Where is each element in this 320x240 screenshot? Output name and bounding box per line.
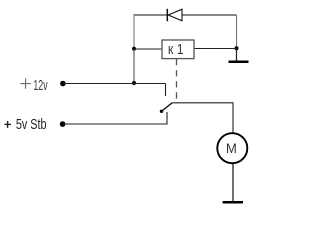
diode D1 cathode bar — [166, 9, 168, 21]
wire switch common to motor — [172, 103, 233, 134]
label +12v plus sign — [20, 83, 30, 85]
wire left riser lower — [133, 49, 135, 84]
wire stub to contact K1.1 top throw — [165, 84, 167, 97]
relay contact K1.1 arm — [161, 103, 172, 112]
wire diode right — [182, 14, 237, 16]
wire from node A corner to diode cathode — [134, 14, 168, 16]
svg-text:к 1: к 1 — [168, 42, 184, 58]
diode D1 triangle — [168, 9, 182, 21]
node junction left — [132, 47, 136, 51]
label + 5v Stb plus sign — [4, 123, 10, 125]
wire junction to relay left — [134, 48, 162, 50]
ground top-right — [229, 60, 249, 63]
ground bottom — [223, 201, 243, 204]
motor M circle — [217, 133, 247, 163]
wire relay right to junction — [194, 48, 237, 50]
wire left riser upper — [133, 15, 135, 49]
node junction at 12v rail — [132, 81, 136, 85]
node +12v terminal — [60, 81, 66, 87]
svg-text:12v: 12v — [33, 78, 48, 94]
wire +12v rail — [63, 83, 166, 85]
wire junction to ground — [236, 49, 238, 62]
svg-text:M: M — [226, 141, 237, 156]
relay coil K1 box — [162, 40, 194, 59]
wire motor to ground — [232, 163, 234, 201]
node +5v terminal — [60, 121, 66, 127]
wire +5v stb rail — [63, 112, 167, 124]
node junction right — [235, 46, 239, 50]
wire right riser — [236, 15, 238, 49]
dashed actuation link from K1 — [176, 59, 178, 101]
relay contact K1.1 pivot dot — [160, 110, 163, 113]
svg-text:5v Stb: 5v Stb — [16, 116, 47, 133]
